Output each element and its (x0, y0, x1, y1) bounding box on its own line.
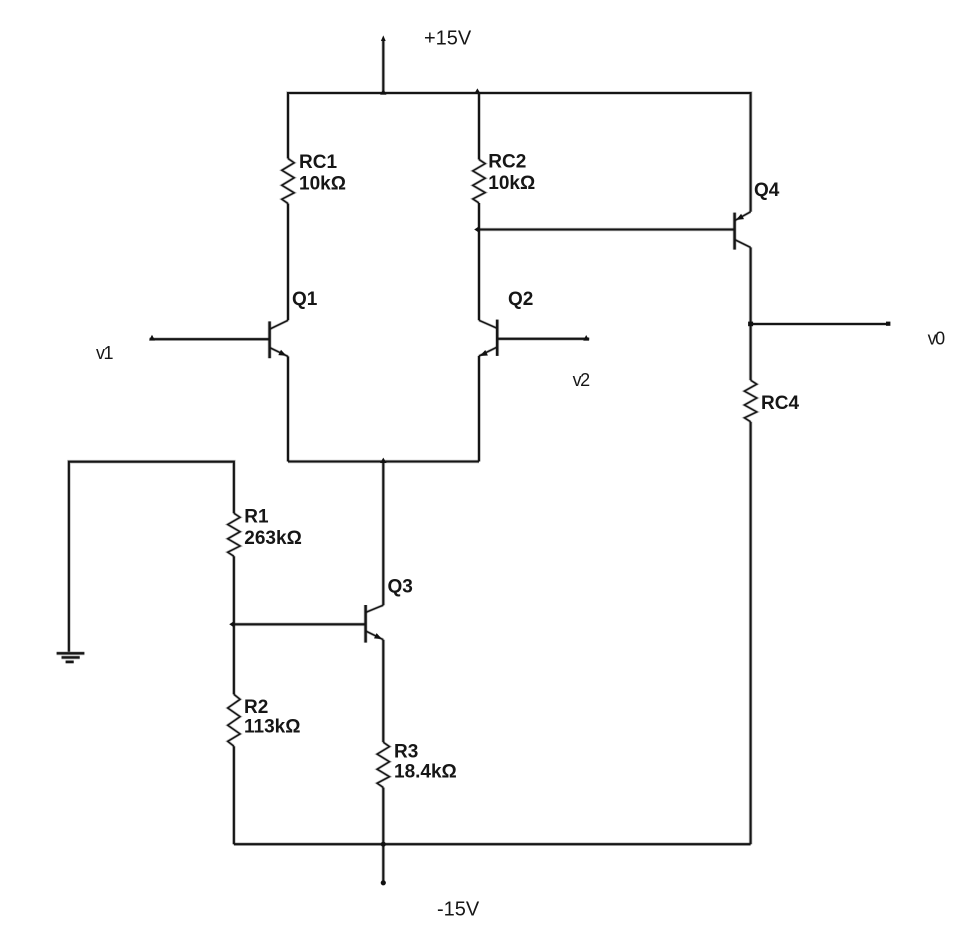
svg-text:RC1: RC1 (299, 152, 337, 173)
svg-text:R1: R1 (244, 507, 269, 528)
svg-text:+15V: +15V (424, 27, 472, 49)
svg-text:113kΩ: 113kΩ (244, 717, 300, 738)
svg-text:RC4: RC4 (761, 393, 799, 414)
svg-text:10kΩ: 10kΩ (488, 173, 535, 194)
svg-text:v1: v1 (96, 343, 114, 363)
svg-text:10kΩ: 10kΩ (299, 174, 346, 195)
svg-text:-15V: -15V (437, 898, 480, 920)
svg-text:Q1: Q1 (292, 289, 318, 310)
svg-text:v2: v2 (573, 370, 591, 390)
svg-text:Q2: Q2 (508, 289, 533, 310)
svg-text:R2: R2 (244, 697, 268, 718)
svg-text:18.4kΩ: 18.4kΩ (394, 761, 457, 782)
svg-text:R3: R3 (394, 741, 418, 762)
svg-text:Q4: Q4 (754, 180, 780, 201)
svg-text:263kΩ: 263kΩ (244, 528, 302, 549)
svg-text:v0: v0 (928, 329, 946, 349)
svg-text:Q3: Q3 (388, 577, 413, 598)
svg-text:RC2: RC2 (488, 151, 526, 172)
